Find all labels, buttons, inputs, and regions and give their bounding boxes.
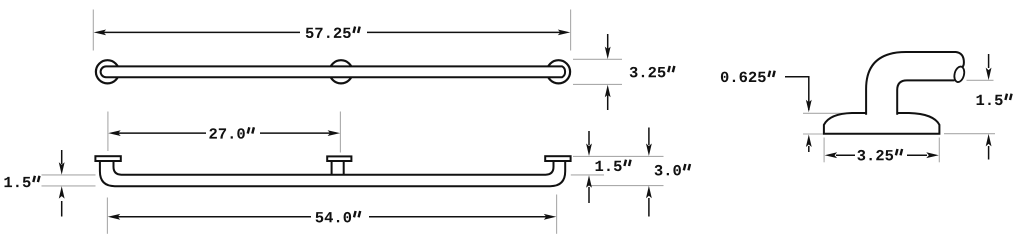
- side view: grab bar outer outline: [866, 52, 964, 115]
- dimension text 54.0 inch: [316, 211, 361, 222]
- top view: extension line right: [570, 10, 572, 51]
- dimension 1.5 arrows (side view): [986, 54, 992, 160]
- side view: bar end cap ellipse: [953, 65, 966, 83]
- side view: flange bottom reference line left: [803, 133, 823, 135]
- dimension text 1.5 inch (front view right): [596, 160, 631, 171]
- dimension 27.0 line and arrows: [108, 130, 340, 136]
- dimension text 1.5 inch (side view): [977, 94, 1012, 105]
- dimension 27.0 extension lines: [108, 112, 341, 153]
- dimension extension lines (front view right): [571, 156, 664, 185]
- front view: right flange plate: [545, 156, 570, 161]
- dimension text 27.0 inch: [209, 127, 253, 138]
- dimension 54.0 extension lines: [107, 195, 556, 234]
- dimension 3.0 arrows: [646, 128, 652, 217]
- dimension 3.25 extension lines (top view right): [573, 59, 622, 84]
- dimension 3.25 extension lines (side view): [824, 138, 939, 163]
- dimension 0.625 down arrow: [806, 100, 812, 113]
- front view: middle flange plate: [327, 156, 351, 161]
- top view: left flange circle: [96, 60, 119, 83]
- dimension text 0.625 inch: [721, 71, 775, 82]
- front view: middle mount stem: [332, 157, 344, 177]
- dimension 57.25 line and arrows: [94, 30, 571, 36]
- dimension text 3.0 inch: [655, 164, 690, 175]
- dimension text 3.25 inch (top view): [630, 66, 675, 77]
- side view: flange top reference line: [803, 112, 852, 114]
- dimension 0.625 up arrow: [806, 135, 812, 153]
- dimension text 3.25 inch (side view): [857, 149, 902, 160]
- dimension 3.25 arrows (top view right): [605, 34, 611, 110]
- dimension 0.625 leader line: [785, 77, 809, 110]
- top view: middle flange circle: [329, 60, 352, 83]
- side view: grab bar inner outline: [897, 80, 954, 114]
- dimension 1.5 arrows (front view left): [59, 150, 65, 217]
- dimension text 57.25 inch: [306, 27, 360, 38]
- dimension 1.5 arrows (front view right): [586, 131, 592, 203]
- side view: flange dome base: [824, 113, 940, 134]
- dimension 54.0 line and arrows: [108, 214, 557, 220]
- dimension 3.25 line and arrows (side view): [825, 152, 939, 158]
- top view: extension line left: [92, 10, 94, 51]
- dimension 1.5 extension lines (front view left): [42, 175, 96, 186]
- dimension 1.5 reference lines (side view): [944, 80, 995, 133]
- front view: left flange plate: [95, 156, 120, 161]
- dimension text 1.5 inch (front view left): [4, 176, 39, 187]
- front view: grab bar tube: [100, 158, 565, 186]
- top view: grab bar tube: [101, 66, 565, 77]
- side view: grab bar body fill: [866, 52, 964, 120]
- top view: right flange circle: [547, 60, 570, 83]
